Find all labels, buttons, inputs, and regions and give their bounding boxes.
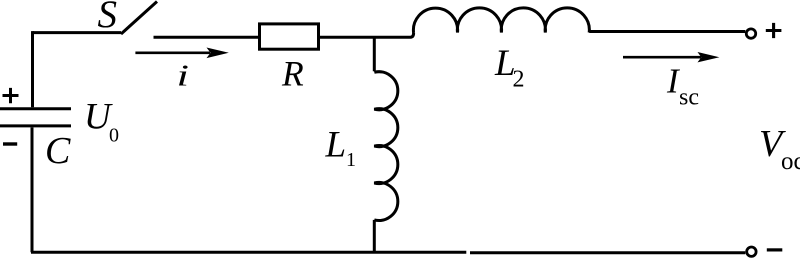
label Voc <box>759 123 800 175</box>
minus sign right terminal <box>767 248 783 251</box>
inductor L2 coil <box>413 8 589 33</box>
wire bottom right segment <box>470 251 745 254</box>
label L1 <box>325 125 357 172</box>
svg-text:R: R <box>281 54 304 94</box>
svg-text:i: i <box>177 59 189 93</box>
inductor L1 coil <box>374 72 398 221</box>
svg-text:oc: oc <box>781 148 800 175</box>
wire top-left horizontal <box>33 31 122 34</box>
svg-text:L: L <box>325 125 347 166</box>
current arrow Isc <box>623 52 719 62</box>
wire left vertical lower <box>31 128 34 253</box>
wire L1 bottom stub <box>373 220 376 252</box>
wire bottom left segment <box>31 251 466 254</box>
capacitor C top plate <box>0 107 71 110</box>
plus sign right terminal <box>766 23 782 38</box>
current arrow i <box>135 48 228 59</box>
svg-text:1: 1 <box>346 149 356 171</box>
switch S blade <box>121 2 157 35</box>
wire resistor to inductor L2 <box>320 33 414 37</box>
resistor R body <box>260 24 319 49</box>
label L2 <box>494 43 525 93</box>
node junction at L1 top <box>373 37 376 71</box>
wire switch to resistor <box>154 36 259 39</box>
plus sign capacitor <box>3 88 19 103</box>
svg-text:0: 0 <box>109 125 119 147</box>
minus sign capacitor <box>3 142 17 145</box>
label Isc <box>666 62 699 111</box>
label U0 <box>84 97 119 147</box>
svg-text:S: S <box>98 0 118 36</box>
terminal circle minus <box>747 247 756 256</box>
wire left vertical upper <box>31 31 34 107</box>
terminal circle plus <box>746 29 755 38</box>
svg-text:C: C <box>45 130 71 172</box>
capacitor C bottom plate <box>0 124 71 127</box>
svg-text:2: 2 <box>513 67 525 93</box>
svg-text:sc: sc <box>679 85 699 111</box>
wire L2 to plus terminal <box>589 30 745 33</box>
